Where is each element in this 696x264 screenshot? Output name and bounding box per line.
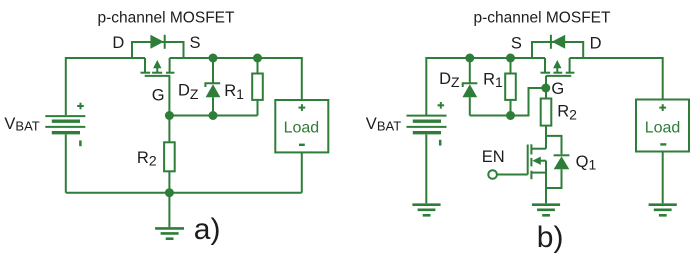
svg-text:VBAT: VBAT xyxy=(4,115,39,134)
wire: circuit b top rail right segment (MOSFET drain to Load) xyxy=(570,58,663,100)
load minus mark (circuit b) xyxy=(660,143,666,145)
resistor R2 (circuit a): body xyxy=(164,142,175,171)
wire: circuit b top rail left segment (battery to MOSFET source) xyxy=(426,58,545,115)
MOSFET body diode branch (circuit b): S-D diode wire xyxy=(532,42,583,58)
junction: DZ bottom node (circuit a) xyxy=(209,111,218,120)
MOSFET body diode branch (circuit a): D-S diode wire xyxy=(132,42,184,58)
p-MOSFET (circuit b): drain stub xyxy=(569,58,571,73)
wire: gate of MOSFET down to gate node (circuit b) xyxy=(545,76,547,88)
svg-text:b): b) xyxy=(537,221,564,254)
wire: DZ/R1 bottom node to gate node (circuit b) xyxy=(470,88,546,116)
svg-text:R1: R1 xyxy=(224,82,244,102)
wire: EN terminal to Q1 gate xyxy=(497,174,528,176)
svg-text:D: D xyxy=(112,34,124,52)
svg-text:G: G xyxy=(152,86,165,104)
load plus mark (circuit b) xyxy=(659,104,666,111)
EN input terminal circle xyxy=(488,170,497,179)
zener diode DZ (circuit b): top wire xyxy=(469,58,471,83)
wire: battery bottom to its ground (circuit b) xyxy=(425,135,427,204)
svg-text:Load: Load xyxy=(645,119,681,136)
svg-text:Load: Load xyxy=(284,119,320,136)
zener diode DZ (circuit a): top wire xyxy=(212,58,214,83)
svg-text:Q1: Q1 xyxy=(576,153,597,173)
junction: DZ top on rail (circuit b) xyxy=(465,54,474,63)
battery VBAT (circuit a) plates xyxy=(45,116,85,133)
svg-text:p-channel MOSFET: p-channel MOSFET xyxy=(474,9,611,26)
load box (circuit b) xyxy=(636,100,689,152)
svg-text:p-channel MOSFET: p-channel MOSFET xyxy=(98,9,235,26)
zener diode DZ (circuit a): cathode bar with bend xyxy=(205,83,220,87)
Q1 body diode: cathode bar xyxy=(554,154,570,156)
wire: node between gate, DZ, R1 bottoms (circuit a) xyxy=(169,115,257,117)
diode of p-MOSFET (circuit b): cathode bar xyxy=(550,35,552,49)
battery plus terminal mark (circuit b) xyxy=(438,102,445,109)
ground symbol under load (circuit b) xyxy=(649,205,677,216)
wire: battery bottom to ground rail (circuit a) xyxy=(65,135,67,193)
p-MOSFET (circuit a): drain stub xyxy=(144,58,146,73)
svg-text:G: G xyxy=(551,80,564,98)
junction: gate/R2 node (circuit a) xyxy=(165,111,174,120)
Q1 body diode: bottom return wire to source xyxy=(546,169,562,188)
wire: gate of MOSFET down to node (circuit a) xyxy=(168,76,170,116)
ground symbol under Q1 (circuit b) xyxy=(532,205,560,216)
svg-text:DZ: DZ xyxy=(178,82,199,103)
resistor R1 (circuit b): body xyxy=(505,74,516,100)
junction: gate node G (circuit b) xyxy=(541,84,550,93)
diode of p-MOSFET (circuit a): cathode bar xyxy=(164,35,166,49)
svg-text:R1: R1 xyxy=(483,70,503,90)
ground symbol (circuit a) xyxy=(155,193,184,239)
junction: DZ top on rail (circuit a) xyxy=(209,54,218,63)
wire: load bottom to return rail (circuit a) xyxy=(301,152,303,192)
battery plus terminal mark (circuit a) xyxy=(77,103,84,110)
resistor R2 (circuit b): body xyxy=(541,99,552,126)
svg-text:DZ: DZ xyxy=(439,70,460,90)
resistor R1 (circuit a): body xyxy=(252,74,263,100)
diode of p-MOSFET (circuit b): anode triangle pointing left xyxy=(552,35,565,49)
p-MOSFET (circuit b): body stub with upward arrow xyxy=(553,60,561,73)
load box (circuit a) xyxy=(275,100,328,152)
resistor R2 (circuit a): top wire xyxy=(168,116,170,143)
svg-text:S: S xyxy=(511,35,522,53)
resistor R2 (circuit b): top wire xyxy=(545,88,547,99)
p-MOSFET (circuit a): source stub xyxy=(169,58,171,73)
n-MOSFET Q1: body stub with left arrow xyxy=(532,157,546,165)
wire: load bottom to its ground (circuit b) xyxy=(662,152,664,204)
p-MOSFET (circuit a): channel segments xyxy=(141,72,175,74)
zener diode DZ (circuit b): bottom wire xyxy=(469,97,471,115)
svg-text:R2: R2 xyxy=(557,103,577,123)
resistor R2 (circuit b): bottom wire to Q1 drain xyxy=(545,126,547,149)
wire: circuit a top rail left segment (battery to MOSFET drain) xyxy=(66,58,145,115)
load plus mark (circuit a) xyxy=(299,104,306,111)
junction: R1 bottom node (circuit b) xyxy=(506,111,515,120)
svg-text:VBAT: VBAT xyxy=(366,115,401,134)
junction: ground node on bottom rail (circuit a) xyxy=(165,188,174,197)
resistor R2 (circuit a): bottom wire xyxy=(168,171,170,192)
resistor R1 (circuit b): bottom wire xyxy=(510,100,512,116)
svg-text:D: D xyxy=(590,35,602,53)
ground symbol under battery (circuit b) xyxy=(412,205,440,216)
battery minus terminal mark (circuit b) xyxy=(439,140,442,146)
svg-text:a): a) xyxy=(194,213,221,246)
p-MOSFET (circuit b): source stub xyxy=(544,58,546,73)
battery VBAT (circuit b) plates xyxy=(407,116,447,133)
load minus mark (circuit a) xyxy=(299,144,305,146)
resistor R1 (circuit a): bottom wire xyxy=(257,100,259,116)
wire: circuit a top rail right segment (MOSFET source to Load) xyxy=(170,58,302,100)
svg-text:EN: EN xyxy=(482,148,505,166)
wire: circuit a bottom return rail xyxy=(66,192,302,194)
p-MOSFET (circuit a): body stub with upward arrow xyxy=(153,60,161,73)
zener diode DZ (circuit b): cathode bar with bend xyxy=(463,83,478,87)
n-MOSFET Q1: channel segments xyxy=(530,144,532,179)
p-MOSFET (circuit b): gate plate xyxy=(546,75,571,77)
junction: R1 top on rail (circuit a) xyxy=(253,54,262,63)
p-MOSFET (circuit b): channel segments xyxy=(541,72,575,74)
Q1 body diode: triangle pointing up xyxy=(554,156,570,169)
resistor R1 (circuit a): top wire xyxy=(257,58,259,74)
wire: Q1 drain to body diode top (circuit b) xyxy=(546,136,562,154)
n-MOSFET Q1: source stub xyxy=(531,172,546,174)
junction: R1 top on rail (circuit b) xyxy=(506,54,515,63)
resistor R1 (circuit b): top wire xyxy=(510,58,512,74)
svg-text:R2: R2 xyxy=(137,149,157,169)
zener diode DZ (circuit a): triangle pointing up xyxy=(206,84,221,97)
battery minus terminal mark (circuit a) xyxy=(79,140,82,146)
p-MOSFET (circuit a): gate plate xyxy=(145,75,171,77)
wire: Q1 source/body down to ground (circuit b) xyxy=(545,161,547,204)
n-MOSFET Q1: drain stub xyxy=(531,148,546,150)
diode of p-MOSFET (circuit a): anode triangle pointing right xyxy=(150,35,163,49)
n-MOSFET Q1: gate plate xyxy=(527,145,529,175)
zener diode DZ (circuit a): bottom wire xyxy=(212,97,214,115)
svg-text:S: S xyxy=(190,34,201,52)
zener diode DZ (circuit b): triangle pointing up xyxy=(462,84,477,97)
